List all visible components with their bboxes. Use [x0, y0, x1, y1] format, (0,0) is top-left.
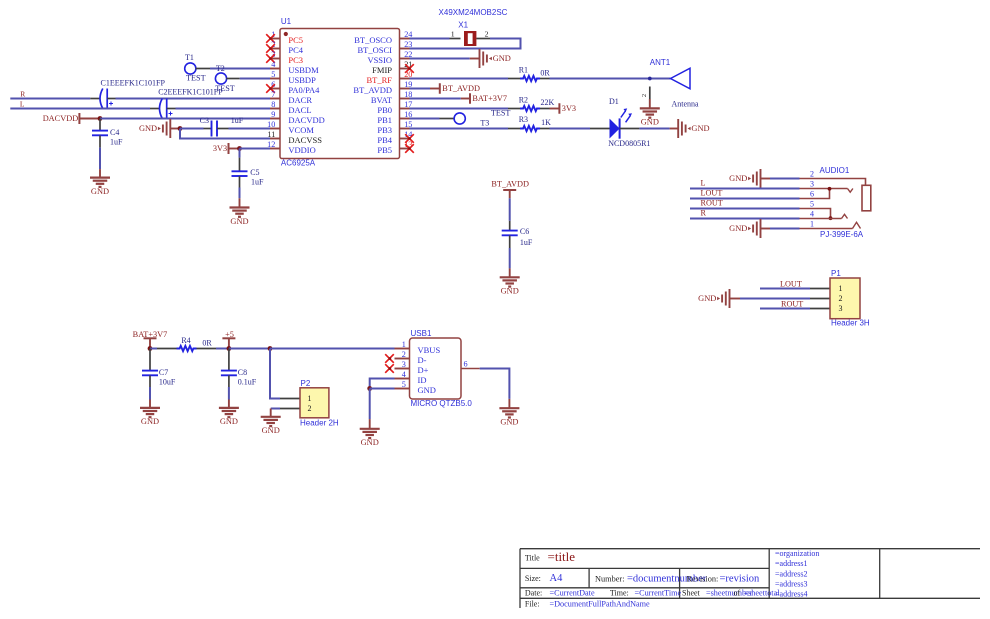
svg-text:File:: File:: [525, 600, 540, 609]
svg-text:R: R: [20, 90, 25, 99]
U1 pin 13 PB5: [377, 140, 413, 155]
svg-text:VDDIO: VDDIO: [288, 145, 315, 155]
resistor R1 0R: [508, 65, 550, 81]
svg-text:MICRO QTZB5.0: MICRO QTZB5.0: [411, 399, 473, 408]
svg-text:Header 2H: Header 2H: [300, 419, 339, 428]
power port +5: [222, 330, 235, 349]
svg-text:R1: R1: [519, 65, 528, 74]
power port 3V3: [213, 143, 240, 154]
svg-text:T3: T3: [480, 119, 489, 128]
U1 pin 2 PC4: [266, 40, 304, 55]
wire to audio pin2: [770, 178, 800, 180]
svg-text:AUDIO1: AUDIO1: [820, 166, 850, 175]
svg-text:GND: GND: [501, 287, 519, 296]
svg-text:3: 3: [810, 180, 814, 189]
capacitor C8 0.1uF: [221, 349, 257, 388]
svg-text:2: 2: [308, 404, 312, 413]
wire GND to P1 pin2: [740, 298, 810, 300]
svg-text:R4: R4: [181, 336, 190, 345]
U1 pin 9 DACVDD: [270, 110, 325, 125]
test point T3: [440, 108, 511, 127]
USB1 pin 6: [461, 359, 480, 368]
U1 pin 11 DACVSS: [267, 130, 322, 145]
wire C6 to GND: [509, 248, 511, 268]
svg-text:TEST: TEST: [186, 74, 206, 83]
svg-text:=organization: =organization: [775, 549, 819, 558]
svg-text:2: 2: [810, 170, 814, 179]
connector AUDIO1 PJ-399E-6A: [800, 166, 871, 239]
wire R3 to D1: [550, 128, 591, 130]
wire pin17 to R2: [410, 108, 509, 110]
wire GND to P2 pin2: [271, 408, 280, 410]
svg-text:Title: Title: [525, 553, 540, 562]
svg-text:Date:: Date:: [525, 589, 542, 598]
svg-text:5: 5: [402, 380, 406, 389]
ground earth at C4: [90, 177, 110, 179]
ground earth at USB pin6: [499, 407, 519, 409]
svg-text:18: 18: [404, 90, 412, 99]
svg-text:GND: GND: [493, 54, 511, 63]
U1 pin 8 DACL: [270, 100, 312, 115]
svg-text:7: 7: [271, 90, 275, 99]
svg-text:1: 1: [308, 394, 312, 403]
svg-text:PB4: PB4: [377, 135, 392, 145]
svg-text:D-: D-: [418, 355, 427, 365]
svg-text:1K: 1K: [541, 118, 551, 127]
wire net ROUT to audio pin5: [690, 208, 800, 210]
power port BT_AVDD: [430, 83, 480, 94]
wire C4 to GND: [99, 148, 101, 170]
capacitor C1 EEEFK1C101FP: [90, 78, 165, 108]
svg-text:VBUS: VBUS: [418, 345, 441, 355]
LED D1 NCD0805R1: [590, 97, 650, 148]
svg-text:=address4: =address4: [775, 589, 808, 598]
power ground GND at VCOM net: [139, 119, 180, 138]
svg-text:NCD0805R1: NCD0805R1: [608, 139, 650, 148]
svg-text:1: 1: [810, 220, 814, 229]
antenna ANT1: [650, 58, 699, 108]
U1 pin 4 USBDM: [270, 60, 319, 75]
wire LOUT to P1 pin1: [760, 288, 810, 290]
power ground GND at D1: [670, 119, 710, 138]
svg-text:AC6925A: AC6925A: [281, 159, 316, 168]
wire BT_RF to R1: [410, 78, 509, 80]
wire T1 to pin4 USBDM: [210, 68, 270, 70]
IC U1 AC6925A body: [280, 17, 400, 168]
ground earth at C7: [140, 407, 160, 409]
svg-text:6: 6: [464, 359, 468, 368]
power port BAT+3V7: [461, 93, 507, 104]
svg-text:22K: 22K: [541, 98, 555, 107]
svg-text:BT_RF: BT_RF: [366, 75, 392, 85]
svg-text:LOUT: LOUT: [701, 189, 723, 198]
svg-text:L: L: [701, 179, 706, 188]
svg-text:GND: GND: [139, 124, 157, 133]
svg-text:X1: X1: [458, 20, 468, 29]
U1 pin 10 VCOM: [267, 120, 314, 135]
svg-text:C3: C3: [200, 116, 209, 125]
wire D1 to GND: [639, 128, 669, 130]
ground earth at P2: [261, 409, 281, 436]
svg-text:2: 2: [402, 350, 406, 359]
power port BT_AVDD mid: [491, 180, 529, 199]
svg-text:16: 16: [404, 110, 412, 119]
svg-text:GND: GND: [91, 187, 109, 196]
wire BAT to R4: [150, 348, 157, 350]
U1 pin 12 VDDIO: [267, 140, 316, 155]
svg-text:Number:: Number:: [595, 574, 625, 583]
wire pin15 to R3: [410, 128, 509, 130]
U1 pin 14 PB4: [377, 130, 413, 145]
capacitor C6 1uF: [502, 221, 533, 248]
node 3V3 junction: [237, 146, 242, 151]
USB1 pin 2 D-: [385, 350, 426, 365]
svg-text:Header 3H: Header 3H: [831, 318, 870, 327]
wire DACVDD to pin9: [100, 118, 270, 120]
svg-text:BVAT: BVAT: [371, 95, 393, 105]
ground earth at C6: [500, 276, 520, 278]
svg-text:0R: 0R: [202, 338, 212, 347]
wire T2 to pin5 USBDP: [240, 78, 270, 80]
svg-text:Antenna: Antenna: [671, 99, 699, 108]
USB1 pin 4 ID: [395, 370, 427, 385]
U1 pin 20 BT_RF: [366, 70, 412, 85]
svg-text:R2: R2: [519, 96, 528, 105]
svg-text:PC4: PC4: [288, 45, 303, 55]
wire branch to USB pin1: [270, 348, 395, 350]
svg-text:C5: C5: [250, 168, 259, 177]
svg-text:DACVDD: DACVDD: [288, 115, 324, 125]
svg-text:C6: C6: [520, 227, 529, 236]
connector P1 Header 3H: [810, 269, 870, 328]
svg-text:PB3: PB3: [377, 125, 392, 135]
connector USB1 MICRO QTZB5.0 body: [410, 329, 473, 408]
svg-text:8: 8: [271, 100, 275, 109]
svg-text:GND: GND: [641, 118, 659, 127]
svg-text:P1: P1: [831, 269, 841, 278]
svg-text:=CurrentDate: =CurrentDate: [550, 589, 595, 598]
svg-text:C2EEEFK1C101FP: C2EEEFK1C101FP: [158, 88, 223, 97]
svg-text:T1: T1: [185, 53, 194, 62]
resistor R4 0R: [157, 336, 216, 351]
wire R4 to +5: [216, 348, 229, 350]
U1 pin 24 BT_OSCO: [354, 30, 412, 45]
wire ROUT to P1 pin3: [760, 308, 810, 310]
svg-text:=address1: =address1: [775, 559, 808, 568]
svg-text:6: 6: [810, 190, 814, 199]
svg-text:BT_OSCI: BT_OSCI: [358, 45, 393, 55]
svg-text:Time:: Time:: [610, 589, 629, 598]
resistor R3 1K: [508, 115, 551, 131]
svg-text:GND: GND: [500, 418, 518, 427]
svg-text:of: of: [734, 589, 741, 598]
svg-text:D+: D+: [418, 365, 429, 375]
svg-text:4: 4: [810, 210, 814, 219]
wire USB pin6 to GND: [480, 369, 510, 399]
wire USB pin4 ID branch: [370, 379, 395, 389]
svg-text:=address2: =address2: [775, 569, 808, 578]
U1 pin 23 BT_OSCI: [358, 40, 413, 55]
svg-text:PJ-399E-6A: PJ-399E-6A: [820, 230, 864, 239]
svg-text:0R: 0R: [540, 69, 550, 78]
node +5 junction: [227, 346, 232, 351]
wire pin24 to crystal: [410, 38, 450, 40]
U1 pin 1 PC5: [266, 30, 303, 45]
svg-text:GND: GND: [220, 417, 238, 426]
power ground GND at P1: [698, 289, 740, 308]
wire net R: [10, 98, 90, 100]
svg-text:GND: GND: [141, 417, 159, 426]
svg-text:R: R: [701, 209, 707, 218]
resistor R2 22K: [508, 96, 555, 112]
svg-text:2: 2: [485, 30, 489, 39]
svg-text:3V3: 3V3: [213, 144, 227, 153]
node C3 junction: [178, 126, 183, 131]
svg-text:1uF: 1uF: [231, 116, 244, 125]
svg-text:=revision: =revision: [720, 574, 760, 585]
svg-text:15: 15: [404, 120, 412, 129]
svg-text:C8: C8: [238, 368, 247, 377]
svg-text:PB5: PB5: [377, 145, 392, 155]
svg-text:23: 23: [404, 40, 412, 49]
svg-text:U1: U1: [281, 17, 292, 26]
capacitor C3 1uF: [200, 116, 244, 137]
wire 3V3 to pin12 VDDIO: [240, 148, 271, 150]
wire to audio pin1: [770, 228, 800, 230]
test point T2: [215, 64, 239, 93]
power port BAT+3V7 bottom: [133, 330, 168, 349]
svg-text:A4: A4: [550, 573, 564, 584]
svg-text:22: 22: [404, 50, 412, 59]
wire junction to GND: [369, 389, 371, 420]
wire net R to audio pin4: [690, 218, 800, 220]
capacitor C2 EEEFK1C101FP: [150, 88, 223, 119]
svg-text:10uF: 10uF: [159, 377, 176, 386]
svg-text:=CurrentTime: =CurrentTime: [635, 589, 682, 598]
svg-text:DACL: DACL: [288, 105, 311, 115]
wire net L to audio pin3: [690, 188, 800, 190]
svg-text:USBDP: USBDP: [288, 75, 316, 85]
node ID GND junction: [367, 386, 372, 391]
svg-text:GND: GND: [698, 294, 716, 303]
test point T1: [185, 53, 210, 83]
net label BT_AVDD wire: [509, 198, 511, 221]
svg-text:GND: GND: [691, 124, 709, 133]
wire junction to C3: [180, 128, 204, 130]
ground earth at C5: [230, 206, 250, 208]
U1 pin 21 FMIP: [372, 60, 414, 75]
USB1 pin 5 GND: [395, 380, 436, 395]
svg-text:GND: GND: [729, 224, 747, 233]
node BAT junction: [148, 346, 153, 351]
wire pin19: [410, 88, 431, 90]
U1 pin 15 PB3: [377, 120, 412, 135]
svg-text:BT_OSCO: BT_OSCO: [354, 35, 392, 45]
capacitor C4 1uF: [92, 119, 123, 148]
capacitor C5 1uF: [232, 149, 265, 188]
svg-text:1: 1: [451, 30, 455, 39]
svg-text:PA0/PA4: PA0/PA4: [288, 85, 320, 95]
svg-text:PC3: PC3: [288, 55, 303, 65]
svg-text:C4: C4: [110, 128, 119, 137]
wire C7 to GND: [149, 387, 151, 400]
svg-text:R3: R3: [519, 115, 528, 124]
ground earth at C8: [219, 407, 239, 409]
node antenna feed: [648, 77, 652, 81]
svg-text:2: 2: [641, 94, 648, 97]
antenna pin 2 lead: [641, 87, 650, 109]
svg-text:3: 3: [839, 304, 843, 313]
svg-text:BT_AVDD: BT_AVDD: [491, 180, 529, 189]
svg-text:24: 24: [404, 30, 412, 39]
crystal X1 X49XM24MOB2SC: [439, 8, 508, 46]
svg-text:0.1uF: 0.1uF: [238, 377, 257, 386]
svg-text:GND: GND: [361, 438, 379, 447]
svg-text:PB1: PB1: [377, 115, 392, 125]
svg-text:T2: T2: [216, 64, 225, 73]
svg-text:11: 11: [267, 130, 275, 139]
svg-text:1: 1: [839, 284, 843, 293]
svg-text:ROUT: ROUT: [781, 300, 803, 309]
svg-text:DACR: DACR: [288, 95, 312, 105]
svg-text:USBDM: USBDM: [288, 65, 319, 75]
svg-text:1uF: 1uF: [110, 138, 123, 147]
ground earth at USB pin5: [360, 428, 380, 430]
wire net L: [10, 108, 150, 110]
svg-text:BT_AVDD: BT_AVDD: [442, 84, 480, 93]
svg-text:1: 1: [402, 340, 406, 349]
USB1 pin 1 VBUS: [395, 340, 441, 355]
svg-text:D1: D1: [609, 97, 619, 106]
wire net LOUT to audio pin6: [690, 198, 800, 200]
svg-text:GND: GND: [230, 217, 248, 226]
wire C1 to DACR pin7: [116, 98, 271, 100]
ground earth at antenna: [640, 107, 660, 109]
svg-text:Revision:: Revision:: [687, 574, 719, 583]
wire R1 to antenna: [550, 78, 671, 80]
node P2 branch junction: [268, 346, 273, 351]
svg-text:ROUT: ROUT: [701, 199, 723, 208]
wire C3 to pin10 VCOM: [229, 128, 271, 130]
wire +5 to branch: [229, 348, 270, 350]
wire C2 to DACL pin8: [176, 108, 271, 110]
svg-text:GND: GND: [418, 385, 436, 395]
svg-text:LOUT: LOUT: [780, 279, 802, 288]
svg-text:DACVDD: DACVDD: [43, 114, 79, 123]
node DACVDD junction: [98, 116, 103, 121]
wire C5 to GND: [239, 188, 241, 199]
svg-text:=DocumentFullPathAndName: =DocumentFullPathAndName: [550, 600, 650, 609]
power ground GND audio pin2: [729, 169, 770, 188]
wire pin16 to T3: [410, 118, 440, 120]
svg-text:X49XM24MOB2SC: X49XM24MOB2SC: [439, 8, 508, 17]
wire pin18: [410, 98, 461, 100]
svg-text:VSSIO: VSSIO: [367, 55, 392, 65]
power ground GND at VSSIO: [470, 49, 511, 68]
svg-text:1uF: 1uF: [520, 238, 533, 247]
wire junction down to pin11 DACVSS: [180, 129, 270, 139]
U1 pin 19 BT_AVDD: [353, 80, 412, 95]
svg-text:3V3: 3V3: [562, 104, 576, 113]
svg-text:10: 10: [267, 120, 275, 129]
svg-text:1uF: 1uF: [251, 177, 264, 186]
U1 pin 7 DACR: [270, 90, 312, 105]
svg-text:BT_AVDD: BT_AVDD: [353, 85, 392, 95]
power port 3V3 at R2: [550, 103, 577, 114]
U1 pin 18 BVAT: [371, 90, 412, 105]
svg-text:Sheet: Sheet: [682, 589, 701, 598]
wire crystal to pin23 loop: [410, 39, 521, 49]
svg-text:PB0: PB0: [377, 105, 392, 115]
U1 pin 3 PC3: [266, 50, 303, 65]
svg-text:GND: GND: [729, 174, 747, 183]
svg-text:C1EEEFK1C101FP: C1EEEFK1C101FP: [101, 78, 166, 87]
svg-text:17: 17: [404, 100, 412, 109]
svg-text:=address3: =address3: [775, 579, 808, 588]
USB1 pin 3 D+: [385, 360, 428, 375]
U1 pin 17 PB0: [377, 100, 412, 115]
U1 pin 5 USBDP: [270, 70, 316, 85]
connector P2 Header 2H: [280, 379, 339, 428]
svg-text:12: 12: [267, 140, 275, 149]
svg-text:TEST: TEST: [491, 108, 511, 117]
svg-text:FMIP: FMIP: [372, 65, 392, 75]
svg-text:P2: P2: [301, 379, 311, 388]
svg-text:BAT+3V7: BAT+3V7: [472, 94, 507, 103]
svg-text:9: 9: [271, 110, 275, 119]
svg-text:VCOM: VCOM: [288, 125, 314, 135]
svg-text:L: L: [20, 99, 25, 108]
svg-text:GND: GND: [262, 426, 280, 435]
wire branch down to P2 pin1: [270, 349, 280, 399]
power port DACVDD: [43, 113, 100, 124]
svg-text:C7: C7: [159, 368, 168, 377]
svg-text:TEST: TEST: [215, 84, 235, 93]
svg-text:Size:: Size:: [525, 574, 541, 583]
svg-text:DACVSS: DACVSS: [288, 135, 322, 145]
title block frame: [520, 549, 980, 608]
wire C8 to GND: [228, 387, 230, 400]
svg-text:5: 5: [810, 200, 814, 209]
svg-text:19: 19: [404, 80, 412, 89]
svg-text:=title: =title: [548, 549, 576, 564]
svg-text:ID: ID: [418, 375, 427, 385]
svg-text:2: 2: [839, 294, 843, 303]
svg-text:5: 5: [271, 70, 275, 79]
svg-text:4: 4: [271, 60, 275, 69]
svg-text:USB1: USB1: [411, 329, 432, 338]
svg-text:PC5: PC5: [288, 35, 303, 45]
svg-text:ANT1: ANT1: [650, 58, 671, 67]
U1 pin 16 PB1: [377, 110, 412, 125]
title block texts: [525, 549, 819, 609]
power ground GND audio pin1: [729, 219, 770, 238]
wire USB pin5 GND: [370, 388, 395, 390]
svg-text:20: 20: [404, 70, 412, 79]
U1 pin 6 PA0/PA4: [266, 80, 320, 95]
svg-text:4: 4: [402, 370, 406, 379]
svg-text:3: 3: [402, 360, 406, 369]
capacitor C7 10uF: [142, 349, 176, 388]
U1 pin 22 VSSIO: [367, 50, 412, 65]
wire pin22 VSSIO to GND: [410, 58, 470, 60]
